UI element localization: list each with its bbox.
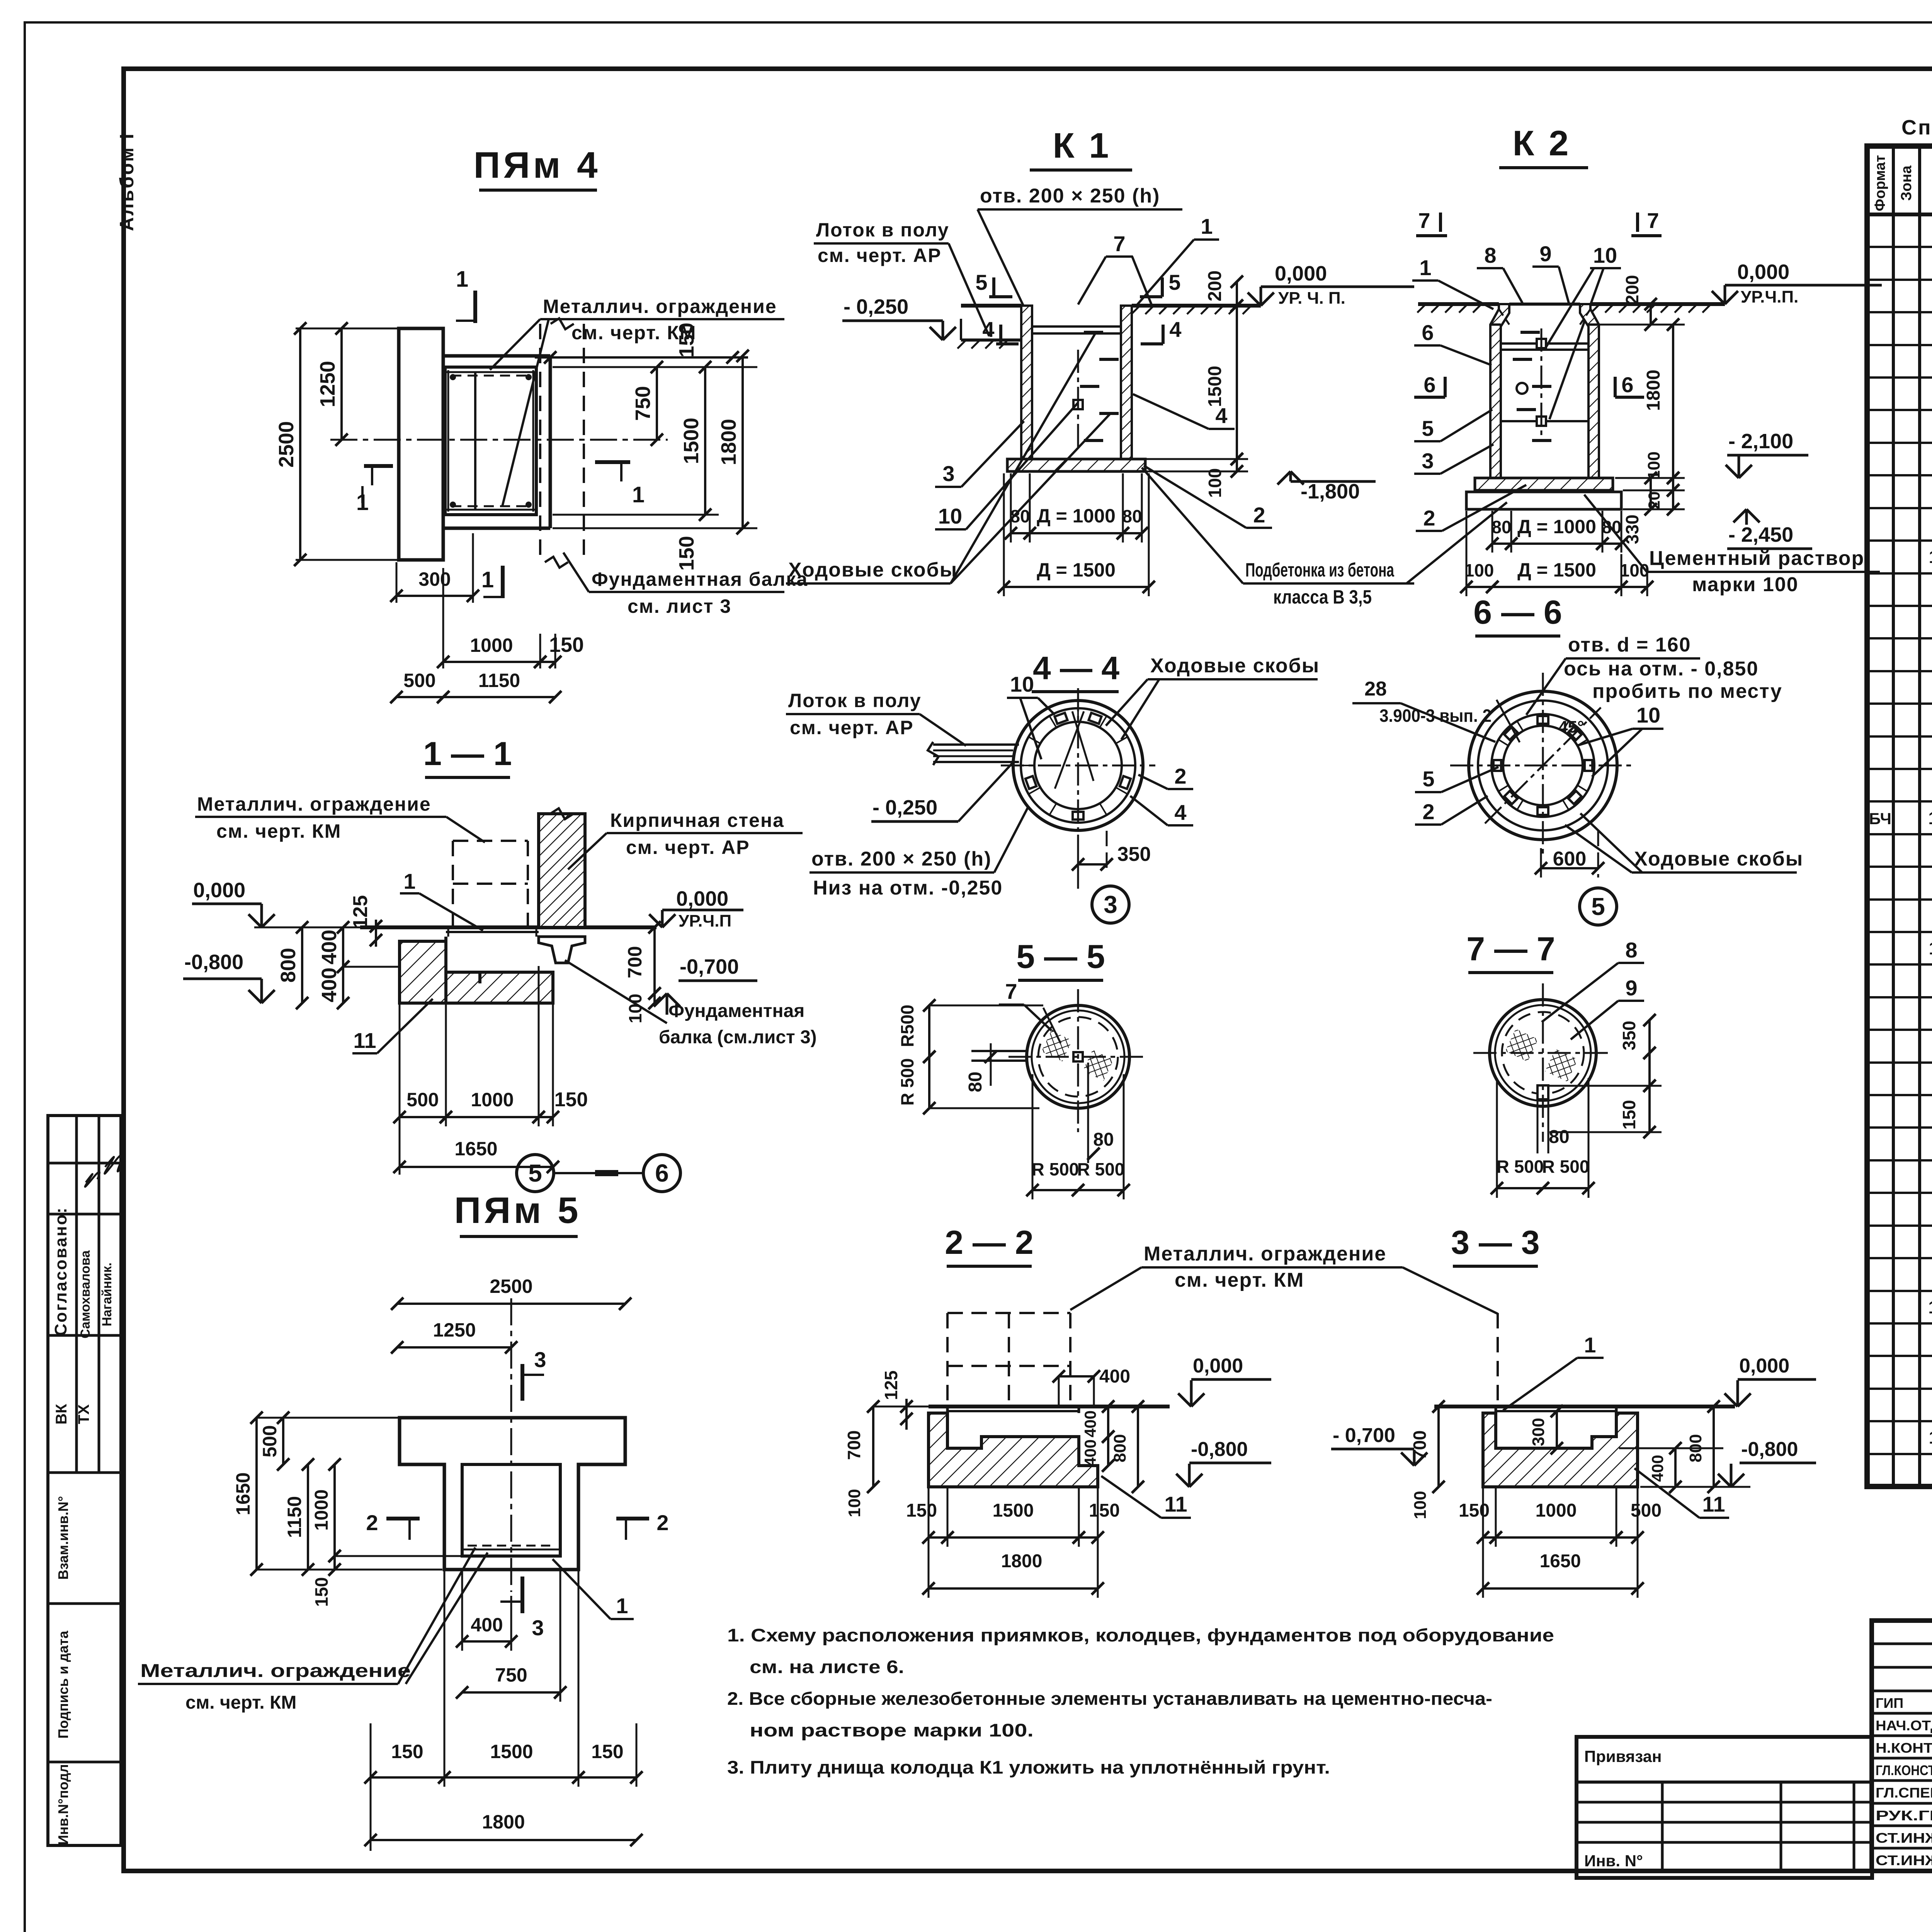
svg-text:0,000: 0,000 xyxy=(1193,1355,1243,1377)
svg-text:125: 125 xyxy=(881,1371,901,1400)
svg-text:8: 8 xyxy=(1484,243,1496,267)
K1 ground line xyxy=(957,306,1261,349)
svg-text:R 500: R 500 xyxy=(1542,1156,1590,1177)
PYam4 section cut 1 top xyxy=(456,267,475,323)
svg-text:80: 80 xyxy=(1122,506,1142,526)
svg-text:5: 5 xyxy=(975,270,987,294)
svg-text:1150: 1150 xyxy=(284,1496,305,1538)
1-1 label brick wall xyxy=(568,810,803,869)
1-1 brick wall xyxy=(539,808,585,927)
K1 well walls xyxy=(1021,306,1132,459)
4-4 label 10 xyxy=(1007,672,1055,759)
svg-text:200: 200 xyxy=(1622,275,1642,305)
PYam4 label ograzhdenie xyxy=(490,296,784,506)
svg-text:100: 100 xyxy=(845,1489,864,1517)
svg-text:150: 150 xyxy=(549,633,584,656)
svg-text:10: 10 xyxy=(1010,672,1034,696)
svg-text:Самохвалова: Самохвалова xyxy=(78,1250,93,1338)
1-1 label fund beam xyxy=(565,960,817,1048)
album vertical label xyxy=(116,132,138,231)
K2 label cement xyxy=(1584,495,1880,596)
6-6 dim 600 xyxy=(1535,831,1604,878)
PYam4 dim 1000/150 xyxy=(437,568,584,668)
view 1-1 title xyxy=(423,735,512,777)
6-6 label 10 xyxy=(1577,703,1663,777)
svg-text:11: 11 xyxy=(353,1028,376,1053)
svg-text:ГЛ.КОНСТР.: ГЛ.КОНСТР. xyxy=(1876,1762,1932,1778)
7-7 labels 8 9 xyxy=(1542,938,1644,1039)
1-1 floor line xyxy=(254,927,656,929)
title block xyxy=(1872,1621,1932,1871)
svg-text:11: 11 xyxy=(1164,1492,1187,1516)
4-4 label 4 xyxy=(1130,796,1193,825)
svg-text:Кирпичная стена: Кирпичная стена xyxy=(610,810,784,831)
svg-text:0,000: 0,000 xyxy=(193,879,245,902)
K2 dims right xyxy=(1600,275,1685,544)
view 4-4 title xyxy=(1032,650,1119,692)
1-1 level -0,800 left xyxy=(183,951,275,1003)
K2 level -2,450 xyxy=(1727,509,1812,549)
spec table title xyxy=(1901,116,1932,139)
svg-text:5 — 5: 5 — 5 xyxy=(1016,938,1105,975)
svg-text:500: 500 xyxy=(1631,1500,1662,1521)
svg-text:- 2,450: - 2,450 xyxy=(1728,523,1793,546)
7-7 dims bottom xyxy=(1491,1078,1595,1198)
svg-text:700: 700 xyxy=(1410,1430,1430,1460)
K1 label 10 xyxy=(935,403,1078,529)
view K1 title xyxy=(1030,126,1132,170)
svg-text:150: 150 xyxy=(311,1577,332,1607)
PYam4 section cut 1-1 right xyxy=(595,462,645,507)
svg-text:3: 3 xyxy=(1422,449,1434,473)
svg-text:см. черт. АР: см. черт. АР xyxy=(818,245,942,266)
K2 ground line xyxy=(1417,304,1725,313)
svg-text:7: 7 xyxy=(1418,208,1430,233)
5-5 dim 80 left xyxy=(965,1043,997,1092)
svg-text:1250: 1250 xyxy=(433,1319,476,1341)
svg-text:1: 1 xyxy=(616,1594,628,1618)
svg-text:см. черт. АР: см. черт. АР xyxy=(626,837,750,858)
K1 skoby marks xyxy=(1073,332,1119,448)
svg-text:R 500: R 500 xyxy=(1077,1159,1125,1179)
svg-text:11: 11 xyxy=(1702,1492,1725,1516)
view 5-5 title xyxy=(1016,938,1105,980)
svg-text:100: 100 xyxy=(1620,560,1650,580)
svg-text:750: 750 xyxy=(631,386,655,421)
svg-text:0,000: 0,000 xyxy=(1737,260,1789,284)
2-2 dims left xyxy=(844,1371,913,1517)
K1 label podbetonka xyxy=(1142,468,1414,608)
svg-text:2: 2 xyxy=(1422,799,1434,824)
svg-text:К 2: К 2 xyxy=(1513,124,1571,163)
PYam5 dim 750 xyxy=(456,1571,566,1702)
svg-text:10: 10 xyxy=(1928,1297,1932,1317)
1-1 pit concrete xyxy=(400,937,553,1003)
notes xyxy=(727,1625,1554,1777)
svg-text:5: 5 xyxy=(1422,416,1434,440)
svg-text:1800: 1800 xyxy=(717,419,740,465)
3-3 fence dashed xyxy=(1497,1313,1499,1406)
svg-text:-0,800: -0,800 xyxy=(1741,1438,1798,1461)
svg-text:400: 400 xyxy=(318,968,341,1002)
6-6 circmark 5 xyxy=(1580,888,1617,925)
svg-text:балка (см.лист 3): балка (см.лист 3) xyxy=(659,1027,817,1048)
svg-text:700: 700 xyxy=(624,946,646,978)
svg-text:2. Все сборные железобетонные: 2. Все сборные железобетонные элементы у… xyxy=(727,1688,1492,1709)
PYam4 pit plan xyxy=(443,356,550,528)
svg-text:Привязан: Привязан xyxy=(1584,1747,1662,1765)
svg-text:1800: 1800 xyxy=(1643,370,1664,411)
svg-text:150: 150 xyxy=(1619,1100,1639,1130)
svg-text:4: 4 xyxy=(982,317,994,342)
PYam5 label ograzhdenie xyxy=(138,1548,488,1713)
3-3 level 0,000 xyxy=(1725,1355,1816,1406)
svg-text:7: 7 xyxy=(1647,208,1659,233)
1-1 circles 5 6 xyxy=(517,1155,680,1192)
PYam4 hidden foundation beam dashed xyxy=(540,318,584,568)
svg-text:2: 2 xyxy=(1253,503,1265,527)
svg-text:10: 10 xyxy=(1928,808,1932,828)
PYam5 dim 1800 xyxy=(364,1811,643,1846)
svg-text:ГЛ.СПЕЦ.: ГЛ.СПЕЦ. xyxy=(1876,1785,1932,1801)
svg-text:Фундаментная балка: Фундаментная балка xyxy=(592,568,808,590)
svg-text:4 — 4: 4 — 4 xyxy=(1033,650,1119,686)
svg-text:300: 300 xyxy=(418,568,451,590)
1-1 level 0,000 left xyxy=(192,879,275,927)
svg-text:80: 80 xyxy=(965,1071,986,1092)
4-4 pipe left xyxy=(928,742,1019,765)
K2 labels 1 8 9 10 xyxy=(1412,241,1621,419)
svg-text:150: 150 xyxy=(1089,1500,1120,1521)
svg-text:2: 2 xyxy=(656,1510,668,1535)
svg-text:R 500: R 500 xyxy=(897,1058,917,1106)
K2 well xyxy=(1490,304,1599,478)
svg-text:- 0,250: - 0,250 xyxy=(844,295,908,318)
svg-text:Ходовые скобы: Ходовые скобы xyxy=(1150,655,1320,677)
svg-text:150: 150 xyxy=(675,536,698,571)
svg-text:4: 4 xyxy=(1169,317,1181,342)
K2 dim 80/1000/80 xyxy=(1486,511,1628,553)
svg-text:10: 10 xyxy=(1593,243,1617,267)
svg-text:ГИП: ГИП xyxy=(1876,1695,1903,1711)
2-2 dims bottom xyxy=(906,1488,1120,1598)
PYam4 label fundament beam xyxy=(563,553,808,617)
svg-text:80: 80 xyxy=(1602,517,1621,537)
svg-text:3.900-3 вып. 2: 3.900-3 вып. 2 xyxy=(1379,706,1492,726)
5-5 dims R500 left xyxy=(897,999,1043,1114)
3-3 pit concrete xyxy=(1483,1406,1638,1487)
svg-text:СТ.ИНЖ.: СТ.ИНЖ. xyxy=(1876,1852,1932,1868)
svg-text:3: 3 xyxy=(534,1347,546,1372)
svg-text:150: 150 xyxy=(391,1741,423,1762)
svg-text:9: 9 xyxy=(1539,241,1551,266)
PYam4 dim 2500 xyxy=(275,322,399,566)
1-1 fence dashed xyxy=(453,841,528,927)
4-4 level -0,250 xyxy=(871,763,1012,821)
svg-text:0,000: 0,000 xyxy=(676,887,728,910)
svg-text:3: 3 xyxy=(532,1616,544,1640)
spec table header xyxy=(1872,155,1932,211)
K2 podbetonka leader2 xyxy=(1406,502,1507,583)
3-3 dims left xyxy=(1410,1400,1445,1519)
svg-text:ПЯм 4: ПЯм 4 xyxy=(473,145,600,186)
svg-text:0,000: 0,000 xyxy=(1739,1355,1789,1377)
svg-text:-1,800: -1,800 xyxy=(1301,480,1360,503)
svg-text:Спецификация элементов монолит: Спецификация элементов монолитных приямк… xyxy=(1901,116,1932,139)
svg-text:Металлич. ограждение: Металлич. ограждение xyxy=(543,296,777,317)
svg-text:400: 400 xyxy=(1099,1366,1130,1387)
PYam4 section 1 cut trace xyxy=(474,372,476,510)
2-2 3-3 ograzhdenie label xyxy=(1070,1243,1498,1314)
svg-text:3: 3 xyxy=(942,461,954,486)
svg-text:см. черт. КМ: см. черт. КМ xyxy=(185,1692,296,1713)
svg-text:Согласовано:: Согласовано: xyxy=(51,1207,70,1336)
svg-text:ось на отм. - 0,850: ось на отм. - 0,850 xyxy=(1564,658,1759,680)
K1 label khodovye skoby xyxy=(786,333,1110,583)
svg-text:- 2,100: - 2,100 xyxy=(1728,430,1793,453)
svg-text:2: 2 xyxy=(1423,506,1435,530)
svg-text:Н.КОНТР.: Н.КОНТР. xyxy=(1876,1740,1932,1756)
PYam5 cut 2 left xyxy=(366,1510,420,1540)
svg-text:1: 1 xyxy=(1419,255,1431,280)
3-3 label 1 xyxy=(1503,1333,1604,1410)
svg-text:7: 7 xyxy=(1005,979,1017,1003)
1-1 metal edging xyxy=(446,927,539,937)
svg-text:150: 150 xyxy=(1459,1500,1490,1521)
svg-text:Фундаментная: Фундаментная xyxy=(668,1001,804,1021)
7-7 dims right xyxy=(1546,1014,1662,1138)
svg-text:1: 1 xyxy=(632,482,645,507)
svg-text:5: 5 xyxy=(1422,767,1434,791)
spec table grid xyxy=(1867,146,1932,1486)
svg-text:3 — 3: 3 — 3 xyxy=(1451,1224,1539,1261)
2-2 floor line xyxy=(873,1406,1170,1408)
svg-text:6 — 6: 6 — 6 xyxy=(1473,594,1562,631)
svg-text:11: 11 xyxy=(1929,938,1932,958)
7-7 circle xyxy=(1473,983,1612,1142)
svg-text:2 — 2: 2 — 2 xyxy=(945,1224,1033,1261)
2-2 level 0,000 xyxy=(1178,1355,1271,1406)
svg-text:600: 600 xyxy=(1553,848,1587,870)
svg-text:ПЯм 5: ПЯм 5 xyxy=(454,1190,581,1231)
svg-text:БЧ: БЧ xyxy=(1869,810,1891,828)
svg-text:1. Схему расположения приямков: 1. Схему расположения приямков, колодцев… xyxy=(727,1625,1554,1645)
svg-text:К 1: К 1 xyxy=(1053,126,1111,165)
svg-text:100: 100 xyxy=(1205,468,1225,498)
svg-text:11: 11 xyxy=(1929,547,1932,567)
svg-text:1150: 1150 xyxy=(478,670,520,691)
1-1 label ograzhdenie xyxy=(195,793,485,842)
view 3-3 title xyxy=(1451,1224,1539,1266)
svg-text:28: 28 xyxy=(1364,678,1387,700)
svg-text:700: 700 xyxy=(844,1430,864,1460)
1-1 dim 1650 xyxy=(393,1138,559,1173)
2-2 dims right 400 800 xyxy=(1081,1400,1144,1493)
view 6-6 title xyxy=(1473,594,1562,636)
6-6 circle xyxy=(1450,673,1636,858)
svg-text:1500: 1500 xyxy=(680,418,703,464)
1-1 dim 800 xyxy=(270,921,398,1009)
svg-text:-0,700: -0,700 xyxy=(680,955,739,978)
PYam5 cut 3 top xyxy=(522,1347,546,1401)
spec table rows xyxy=(1869,221,1932,1480)
4-4 otv label xyxy=(810,808,1028,899)
K2 slab xyxy=(1466,478,1621,509)
svg-text:500: 500 xyxy=(259,1425,281,1457)
svg-text:100: 100 xyxy=(1411,1491,1430,1519)
PYam4 dim 1800 right xyxy=(717,350,749,534)
svg-text:Ходовые скобы: Ходовые скобы xyxy=(1634,848,1803,870)
svg-text:РУК.ГР.: РУК.ГР. xyxy=(1876,1808,1932,1823)
svg-text:ВК: ВК xyxy=(53,1404,70,1425)
PYam5 dims left xyxy=(232,1412,462,1607)
svg-text:УР. Ч. П.: УР. Ч. П. xyxy=(1278,289,1345,308)
svg-text:6: 6 xyxy=(655,1159,669,1187)
svg-text:400: 400 xyxy=(1648,1455,1667,1482)
PYam5 dim 2500 top xyxy=(391,1276,631,1414)
PYam4 dim 1250 xyxy=(316,322,348,446)
left approval stamp strip xyxy=(48,1116,125,1845)
K1 lotok label xyxy=(814,219,989,336)
svg-text:см. черт. КМ: см. черт. КМ xyxy=(216,820,341,842)
K1 cut 5 marks xyxy=(975,270,1180,297)
svg-text:1: 1 xyxy=(481,567,494,592)
svg-text:1000: 1000 xyxy=(1536,1500,1577,1521)
svg-text:1000: 1000 xyxy=(471,1089,514,1111)
svg-text:150: 150 xyxy=(591,1741,623,1762)
svg-text:8: 8 xyxy=(1625,938,1637,962)
svg-text:Ходовые скобы: Ходовые скобы xyxy=(788,559,957,581)
svg-text:400: 400 xyxy=(1081,1439,1099,1466)
K1 dims right xyxy=(1133,270,1248,498)
5-5 circle xyxy=(971,989,1144,1132)
svg-text:Подбетонка из бетона: Подбетонка из бетона xyxy=(1245,559,1395,581)
svg-text:Цементный раствор: Цементный раствор xyxy=(1649,547,1864,570)
svg-text:400: 400 xyxy=(1081,1410,1099,1437)
svg-text:5: 5 xyxy=(1591,893,1605,920)
5-5 label 7 xyxy=(999,979,1057,1036)
svg-text:1650: 1650 xyxy=(232,1472,254,1515)
svg-text:80: 80 xyxy=(1492,517,1511,537)
K1 level 0,000 xyxy=(1248,262,1414,308)
view 2-2 title xyxy=(945,1224,1033,1266)
4-4 label 2 xyxy=(1138,764,1193,789)
svg-text:400: 400 xyxy=(471,1614,503,1636)
svg-text:1800: 1800 xyxy=(1001,1551,1043,1571)
svg-text:400: 400 xyxy=(318,930,341,964)
3-3 dim 300 xyxy=(1529,1405,1563,1454)
svg-text:1: 1 xyxy=(403,869,415,893)
6-6 skoby label xyxy=(1565,813,1803,872)
svg-text:Поз.: Поз. xyxy=(1929,167,1932,199)
svg-text:см. черт. КМ: см. черт. КМ xyxy=(1175,1269,1304,1291)
svg-text:1500: 1500 xyxy=(1205,366,1225,407)
svg-text:80: 80 xyxy=(1549,1127,1569,1147)
3-3 floor line xyxy=(1434,1405,1735,1408)
6-6 labels 5 2 xyxy=(1415,767,1498,825)
5-5 dims bottom xyxy=(1026,1063,1130,1199)
3-3 dims right 400 800 xyxy=(1619,1400,1750,1493)
svg-text:1: 1 xyxy=(1584,1333,1596,1357)
4-4 circmark 3 xyxy=(1078,831,1129,923)
6-6 otv label xyxy=(1526,634,1782,715)
PYam5 dim 150/1500/150 xyxy=(364,1571,643,1851)
view 7-7 title xyxy=(1466,930,1555,973)
svg-text:1650: 1650 xyxy=(1540,1551,1581,1571)
svg-text:750: 750 xyxy=(495,1664,527,1686)
6-6 label 28 xyxy=(1352,678,1495,742)
K1 label 4 xyxy=(1133,394,1235,429)
svg-text:1 — 1: 1 — 1 xyxy=(423,735,512,772)
svg-text:-0,800: -0,800 xyxy=(1191,1438,1248,1461)
PYam4 beam strip xyxy=(399,328,443,560)
svg-text:ном растворе марки 100.: ном растворе марки 100. xyxy=(750,1720,1034,1740)
svg-text:11: 11 xyxy=(1929,1427,1932,1447)
K1 bottom slab xyxy=(1007,459,1145,471)
2-2 dim 400 top xyxy=(1053,1366,1130,1406)
PYam5 outline xyxy=(400,1418,625,1570)
svg-text:350: 350 xyxy=(1117,843,1151,866)
1-1 dim 500/1000/150 xyxy=(393,966,588,1175)
1-1 label 1 xyxy=(400,869,483,930)
svg-text:см. черт. КМ: см. черт. КМ xyxy=(571,322,696,344)
K1 label 7 xyxy=(1078,231,1151,304)
svg-text:5: 5 xyxy=(1168,270,1180,294)
svg-text:Формат: Формат xyxy=(1872,155,1888,211)
view PYam5 title xyxy=(454,1190,581,1236)
svg-text:1800: 1800 xyxy=(482,1811,525,1833)
svg-text:80: 80 xyxy=(1093,1129,1114,1150)
svg-text:ТХ: ТХ xyxy=(75,1404,92,1424)
svg-text:Д = 1000: Д = 1000 xyxy=(1037,505,1116,527)
svg-text:R 500: R 500 xyxy=(1032,1159,1079,1179)
svg-text:Подпись и дата: Подпись и дата xyxy=(55,1631,71,1739)
3-3 level -0,800 xyxy=(1718,1438,1816,1487)
svg-text:Металлич. ограждение: Металлич. ограждение xyxy=(1144,1243,1386,1265)
3-3 dims bottom xyxy=(1459,1488,1662,1598)
svg-text:1500: 1500 xyxy=(490,1741,533,1762)
svg-text:Металлич. ограждение: Металлич. ограждение xyxy=(140,1661,411,1681)
svg-text:Металлич. ограждение: Металлич. ограждение xyxy=(197,793,431,815)
svg-text:пробить по месту: пробить по месту xyxy=(1592,680,1782,702)
svg-text:200: 200 xyxy=(1205,270,1225,301)
svg-text:350: 350 xyxy=(1619,1021,1639,1051)
1-1 dim 125 xyxy=(349,895,382,947)
svg-text:см. на листе 6.: см. на листе 6. xyxy=(750,1656,904,1677)
svg-text:125: 125 xyxy=(349,895,372,929)
svg-text:отв. 200 × 250 (h): отв. 200 × 250 (h) xyxy=(980,185,1160,207)
4-4 circle xyxy=(1001,688,1155,843)
svg-text:класса В 3,5: класса В 3,5 xyxy=(1273,586,1372,608)
svg-text:СТ.ИНЖ.: СТ.ИНЖ. xyxy=(1876,1830,1932,1846)
K2 level -2,100 xyxy=(1726,430,1808,478)
1-1 foundation beam below floor xyxy=(539,937,585,963)
view PYam4 title xyxy=(473,145,600,190)
1-1 dim 400/400 xyxy=(318,921,400,1009)
svg-text:0,000: 0,000 xyxy=(1275,262,1327,285)
PYam4 dim 1500 right xyxy=(680,361,711,521)
PYam4 dim 750 right xyxy=(631,361,663,446)
K1 otv label xyxy=(978,185,1182,305)
3-3 level -0,700 xyxy=(1331,1424,1427,1466)
PYam4 section cut 1-1 left xyxy=(356,466,393,515)
2-2 pit concrete xyxy=(929,1406,1098,1487)
K2 level 0,000 xyxy=(1712,260,1882,306)
PYam4 dim 300 bottom xyxy=(390,533,479,603)
svg-text:1500: 1500 xyxy=(993,1500,1034,1521)
2-2 level -0,800 xyxy=(1176,1438,1271,1487)
PYam4 centerline xyxy=(330,439,668,441)
